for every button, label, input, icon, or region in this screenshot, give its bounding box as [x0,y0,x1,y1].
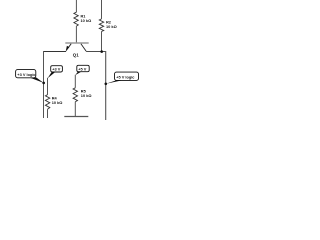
resistor R1 [74,12,78,26]
svg-text:+3 V: +3 V [52,67,61,72]
wire R5 top lead [74,75,76,88]
wire left rail [43,51,45,118]
wire R1 bottom lead to Q1 base bar [75,26,77,42]
wire R1 top lead [75,0,77,12]
Q1 collector diagonal [81,44,86,51]
callout +3 V [48,66,63,79]
svg-text:10 kΩ: 10 kΩ [52,100,63,105]
transistor Q1 [65,43,88,51]
wire R4 top lead [47,78,49,95]
svg-text:+3 V logic: +3 V logic [17,72,36,77]
callout +5 V logic [106,72,139,84]
svg-text:10 kΩ: 10 kΩ [106,24,117,29]
wire right rail [105,52,107,120]
Q1 emitter diagonal with arrow [66,44,71,51]
junction dot R2/collector [100,50,103,53]
svg-text:10 kΩ: 10 kΩ [81,93,92,98]
junction dot left rail [42,82,45,85]
svg-text:Q1: Q1 [73,53,79,58]
junction dot right rail [105,83,108,86]
Q1 base bar [65,42,88,44]
resistor R5 [73,88,77,102]
resistor R4 [45,95,49,110]
wire R5 bottom lead [74,102,76,116]
resistor R2 [99,19,103,32]
wire collector to right rail [86,51,106,53]
svg-text:+5 V logic: +5 V logic [116,74,135,79]
svg-text:+5 V: +5 V [78,66,87,71]
wire R2 top lead [101,0,103,19]
wire R2 bottom lead [101,31,103,51]
wire R4 bottom lead [47,109,49,118]
callout +3 V logic [16,70,44,83]
callout +5 V [75,65,89,75]
svg-text:10 kΩ: 10 kΩ [81,18,92,23]
wire emitter to left rail [44,51,67,53]
ground bar [64,116,88,118]
